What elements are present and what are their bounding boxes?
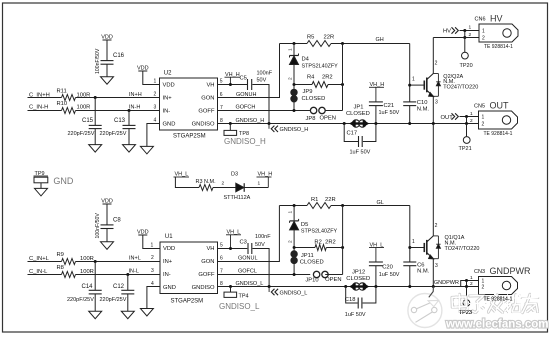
svg-text:D3: D3 — [231, 172, 238, 178]
svg-text:C_IN-L: C_IN-L — [29, 269, 48, 275]
svg-text:GNDISO_L: GNDISO_L — [219, 302, 260, 311]
svg-text:100R: 100R — [80, 269, 94, 275]
svg-text:CN3: CN3 — [474, 269, 485, 275]
svg-text:STGAP2SM: STGAP2SM — [173, 134, 206, 140]
node junction Q1 emitter/bus — [432, 285, 435, 288]
wire U2 pin5 to C5 — [218, 84, 248, 86]
node junction R11/C15 — [94, 96, 97, 99]
svg-text:22R: 22R — [324, 35, 335, 41]
svg-text:100nF: 100nF — [257, 71, 273, 77]
svg-text:VDD: VDD — [163, 246, 175, 252]
ground (C13) — [123, 145, 136, 153]
svg-text:100R: 100R — [77, 105, 91, 111]
wire GON_L riser to R1 row — [279, 205, 307, 207]
jumper JP10 OPEN — [313, 271, 319, 277]
svg-text:GL: GL — [377, 200, 384, 206]
wire U1 pin7 GOFF to JP10 — [218, 274, 311, 276]
wire GL drop to gate — [409, 206, 411, 262]
wire C6 to bus — [409, 266, 411, 287]
wire C16 to ground — [106, 64, 108, 77]
svg-text:C10: C10 — [417, 100, 428, 106]
svg-text:C13: C13 — [114, 118, 126, 124]
wire R8 to U1 pin3 — [76, 274, 161, 276]
capacitor C8 100nF/50V — [101, 224, 114, 226]
wire C_IN-L to R8 — [28, 274, 62, 276]
wire C15 to ground — [94, 129, 96, 145]
node junction VH_L stub — [229, 247, 232, 250]
svg-text:GOFCL: GOFCL — [238, 269, 257, 275]
svg-text:1: 1 — [412, 77, 415, 83]
jumper JP11 CLOSED — [293, 248, 295, 253]
wire C5 to GNDISO_H drop — [252, 85, 269, 124]
svg-text:C18: C18 — [345, 297, 356, 303]
svg-text:3: 3 — [435, 100, 438, 106]
svg-text:2R2: 2R2 — [325, 239, 336, 245]
svg-text:GOFF: GOFF — [198, 272, 215, 278]
svg-text:C3: C3 — [240, 239, 247, 245]
wire OUT row to Q1 collector — [432, 124, 434, 236]
jumper JP8 OPEN — [310, 107, 316, 113]
wire OUT pins link — [466, 117, 468, 124]
svg-text:JP1: JP1 — [354, 105, 364, 111]
node junction C5 drop on bus — [268, 122, 271, 125]
svg-text:JP9: JP9 — [303, 89, 313, 95]
svg-text:2: 2 — [288, 240, 294, 243]
capacitor C14 220pF/25V — [94, 262, 96, 291]
svg-text:3: 3 — [154, 105, 157, 111]
svg-text:2: 2 — [482, 285, 485, 291]
svg-text:N.M.: N.M. — [417, 107, 430, 113]
node junction gate tap — [408, 84, 411, 87]
wire Q1 emitter to bus — [432, 259, 434, 287]
port GNDISO_L chevron — [268, 287, 270, 293]
wire bus to CN3 pin1 — [461, 281, 479, 287]
connector CN3 GNDPWR TE 928814-1 — [479, 277, 518, 295]
svg-text:2: 2 — [435, 61, 438, 67]
wire gate to Q2 — [410, 84, 424, 86]
svg-text:C_IN-H: C_IN-H — [29, 105, 48, 111]
watermark pen mark — [429, 287, 434, 298]
svg-text:CN6: CN6 — [475, 17, 486, 23]
svg-text:VDD: VDD — [163, 82, 175, 88]
svg-text:1: 1 — [258, 181, 261, 187]
svg-text:OPEN: OPEN — [325, 277, 341, 283]
wire VDD to U2 pin1 — [143, 71, 160, 85]
wire R2 row — [294, 247, 315, 249]
wire R11 to U2 pin2 — [76, 97, 160, 99]
svg-text:GON: GON — [201, 96, 214, 102]
svg-text:1uF 50V: 1uF 50V — [350, 150, 371, 156]
wire VH_L to R3 — [175, 177, 199, 188]
node junction emitter/bus — [432, 122, 435, 125]
op-amp U2 STGAP2SM gate driver — [160, 78, 218, 130]
svg-text:1: 1 — [482, 29, 485, 35]
wire C10 to bus — [409, 106, 411, 124]
svg-text:IN-H: IN-H — [129, 104, 140, 110]
svg-text:JP8: JP8 — [306, 116, 316, 122]
svg-text:2: 2 — [222, 181, 225, 187]
wire U1 pin6 GON to R1 riser — [218, 206, 280, 262]
svg-text:TO247/TO220: TO247/TO220 — [445, 246, 480, 252]
wire C14 to ground — [94, 294, 96, 311]
watermark text shao — [506, 296, 510, 312]
svg-text:VH: VH — [206, 246, 214, 252]
svg-text:GNDISO_H: GNDISO_H — [224, 137, 266, 146]
svg-text:GONUH: GONUH — [236, 92, 257, 98]
wire U2 pin4 to ground — [147, 124, 160, 147]
svg-text:2: 2 — [154, 92, 157, 98]
svg-text:3: 3 — [151, 268, 154, 274]
svg-text:C_IN+L: C_IN+L — [29, 256, 50, 262]
svg-text:R10: R10 — [57, 101, 68, 107]
svg-text:JP10: JP10 — [305, 278, 318, 284]
diode D5 STPS2L40ZFY — [293, 206, 295, 221]
svg-text:100nF: 100nF — [255, 234, 271, 240]
wire R10 to U2 pin3 — [76, 110, 160, 112]
node junction R10/C13 — [128, 109, 131, 112]
wire JP8 to riser — [325, 110, 342, 112]
svg-text:TE 928814-1: TE 928814-1 — [484, 297, 513, 303]
ground (C14) — [89, 311, 102, 319]
svg-text:IN+L: IN+L — [129, 256, 141, 262]
node junction R1 right — [341, 204, 344, 207]
connector CN5 OUT TE 928814-1 — [479, 111, 518, 129]
ground (C16) — [101, 77, 114, 85]
wire U1 pin4 to ground — [147, 287, 160, 309]
svg-text:TP23: TP23 — [459, 310, 472, 316]
node junction C3 drop on bus — [268, 285, 271, 288]
svg-text:D4: D4 — [302, 57, 310, 63]
svg-text:GND: GND — [53, 176, 74, 186]
svg-text:GNDISO_L: GNDISO_L — [236, 281, 264, 287]
wire C21 to bus — [375, 106, 377, 124]
svg-text:1: 1 — [470, 275, 473, 281]
svg-text:GNDISO_L: GNDISO_L — [280, 290, 308, 296]
svg-text:4: 4 — [154, 118, 157, 124]
svg-text:TP21: TP21 — [459, 146, 472, 152]
svg-text:1: 1 — [151, 242, 154, 248]
watermark text you — [522, 296, 537, 300]
node junction C17 left — [343, 122, 346, 125]
wire riser x342 bottom — [342, 206, 344, 275]
port GNDISO_H chevron — [268, 124, 270, 129]
svg-text:100nF/50V: 100nF/50V — [95, 213, 101, 239]
svg-text:IN+: IN+ — [163, 259, 173, 265]
wire GH drop to gate — [409, 44, 411, 102]
svg-text:GNDISO: GNDISO — [192, 122, 215, 128]
svg-text:C21: C21 — [384, 103, 395, 109]
capacitor C10 N.M. — [403, 101, 416, 103]
svg-text:1: 1 — [470, 111, 473, 117]
capacitor C21 1uF 50V — [375, 87, 377, 101]
node junction C20/bus — [374, 285, 377, 288]
node junction C10/bus — [408, 122, 411, 125]
svg-text:STTH112A: STTH112A — [224, 195, 251, 201]
svg-text:D5: D5 — [301, 222, 308, 228]
capacitor C16 100nF/50V — [101, 60, 114, 62]
svg-text:1uF 50V: 1uF 50V — [379, 110, 400, 116]
wire C8 to ground — [106, 229, 108, 242]
wire C_IN+H to R11 — [28, 97, 62, 99]
wire Q2 emitter to bus — [432, 96, 434, 123]
capacitor C13 220pF/25V — [128, 111, 130, 126]
wire VDD to C16 — [106, 40, 108, 60]
node junction JP9 on GOFF — [293, 109, 296, 112]
wire R3 to D3 — [213, 187, 236, 189]
svg-text:C20: C20 — [382, 265, 393, 271]
wire HV pins link — [464, 31, 466, 38]
svg-text:C5: C5 — [240, 76, 247, 82]
node junction C21/bus — [374, 122, 377, 125]
svg-text:OPEN: OPEN — [320, 115, 336, 121]
capacitor C20 1uF 50V — [375, 248, 377, 262]
svg-text:CLOSED: CLOSED — [346, 276, 370, 282]
svg-text:JP11: JP11 — [301, 253, 314, 259]
watermark text fa — [488, 297, 503, 301]
wire C3 to GNDISO_L drop — [253, 249, 270, 287]
svg-text:2: 2 — [470, 118, 473, 124]
node junction D4/R4 — [293, 83, 296, 86]
svg-text:STPS2L40ZFY: STPS2L40ZFY — [302, 64, 339, 70]
ground (TP9) — [35, 188, 48, 196]
wire GON riser to R5 row — [280, 43, 308, 45]
watermark text zi — [470, 296, 484, 302]
node junction OUT pin2 — [465, 122, 468, 125]
node junction OUT pin1 — [465, 115, 468, 118]
capacitor C15 220pF/25V — [94, 98, 96, 126]
ground (C12) — [121, 311, 134, 319]
svg-text:GNDISO_H: GNDISO_H — [280, 127, 309, 133]
svg-text:1: 1 — [469, 25, 472, 31]
test point TP4 — [229, 285, 232, 288]
op-amp U1 STGAP2SM gate driver — [160, 242, 218, 294]
svg-text:R4: R4 — [307, 75, 315, 81]
ground (U1 GND) — [140, 309, 153, 317]
svg-text:C14: C14 — [82, 284, 94, 290]
wire JP10 to riser — [325, 274, 342, 276]
svg-text:C12: C12 — [113, 284, 125, 290]
svg-text:TP4: TP4 — [239, 294, 249, 300]
wire VDD to U1 pin1 — [143, 235, 160, 249]
watermark text dian — [460, 294, 468, 311]
svg-text:IN-: IN- — [163, 272, 171, 278]
svg-text:CLOSED: CLOSED — [346, 111, 370, 117]
wire U1 pin8 GNDISO_L bus — [218, 286, 479, 288]
svg-text:C17: C17 — [347, 131, 358, 137]
svg-text:U2: U2 — [164, 71, 172, 77]
capacitor C12 220pF/25V — [127, 275, 129, 291]
node junction R2 right — [341, 246, 344, 249]
node junction C6/bus — [408, 285, 411, 288]
svg-text:GOFF: GOFF — [198, 109, 215, 115]
svg-text:1: 1 — [412, 239, 415, 245]
svg-text:C15: C15 — [82, 118, 94, 124]
wire R9 to U1 pin2 — [76, 261, 161, 263]
node junction D4 top — [293, 42, 296, 45]
svg-text:OUT: OUT — [441, 115, 454, 121]
svg-text:HV: HV — [490, 14, 503, 24]
svg-text:220pF/25V: 220pF/25V — [68, 131, 95, 137]
svg-text:1: 1 — [482, 115, 485, 121]
svg-text:2: 2 — [151, 255, 154, 261]
svg-text:CLOSED: CLOSED — [302, 96, 326, 102]
diode D4 STPS2L40ZFY — [293, 44, 295, 56]
ground (C15) — [89, 145, 102, 153]
wire OUT to CN5 — [460, 116, 479, 118]
wire R4 row — [294, 84, 312, 86]
svg-text:50V: 50V — [255, 242, 265, 248]
svg-text:GNDPWR: GNDPWR — [490, 266, 531, 276]
svg-text:GOFCH: GOFCH — [236, 105, 256, 111]
wire TP9 to ground — [40, 183, 42, 189]
svg-text:VH: VH — [206, 82, 214, 88]
node junction D5/R2 — [293, 246, 296, 249]
svg-text:R5: R5 — [307, 35, 314, 41]
svg-text:STGAP2SM: STGAP2SM — [171, 299, 204, 305]
svg-text:GNDPWR: GNDPWR — [434, 280, 459, 286]
jumper JP9 CLOSED — [293, 85, 295, 90]
svg-text:1uF 50V: 1uF 50V — [379, 272, 400, 278]
svg-text:22R: 22R — [325, 197, 336, 203]
node junction D5 top — [293, 204, 296, 207]
svg-text:2: 2 — [435, 223, 438, 229]
svg-text:GND: GND — [163, 285, 176, 291]
svg-text:220pF/25V: 220pF/25V — [67, 297, 94, 303]
svg-text:100R: 100R — [80, 256, 94, 262]
wire VDD to C8 — [106, 204, 108, 225]
wire Q2 collector to HV row — [432, 38, 434, 74]
svg-text:2R2: 2R2 — [322, 75, 333, 81]
svg-text:JP12: JP12 — [352, 269, 365, 275]
svg-text:HV: HV — [443, 29, 451, 35]
svg-text:1: 1 — [288, 48, 294, 51]
svg-text:TP20: TP20 — [460, 63, 473, 69]
wire U1 pin5 to C3 — [218, 248, 248, 250]
svg-text:C8: C8 — [113, 218, 121, 224]
svg-text:R9: R9 — [57, 252, 64, 258]
svg-text:2: 2 — [469, 32, 472, 38]
svg-text:GONUL: GONUL — [238, 256, 258, 262]
svg-text:220pF/25V: 220pF/25V — [100, 297, 127, 303]
svg-text:TE 928814-1: TE 928814-1 — [484, 44, 513, 50]
svg-text:1: 1 — [288, 211, 294, 214]
svg-text:1: 1 — [154, 78, 157, 84]
node junction R5/GOFF riser — [341, 42, 344, 45]
wire C20 to bus — [375, 266, 377, 287]
node junction R4 right — [341, 83, 344, 86]
ground (C8) — [101, 242, 114, 250]
svg-text:50V: 50V — [257, 77, 267, 83]
svg-text:IN-L: IN-L — [129, 269, 139, 275]
ground (U2 GND) — [140, 146, 153, 154]
svg-text:R11: R11 — [57, 89, 67, 95]
wire C13 to ground — [128, 129, 130, 145]
svg-text:2: 2 — [288, 77, 294, 80]
svg-text:GH: GH — [376, 37, 384, 43]
node junction R8/C12 — [126, 273, 129, 276]
wire D3 to VH_H — [244, 187, 268, 189]
svg-text:2: 2 — [470, 281, 473, 287]
wire HV to CN6 — [460, 30, 480, 32]
wire R1 to GL corner — [331, 205, 410, 207]
node junction CN3 pin1 — [465, 279, 468, 282]
watermark logo circle — [408, 294, 442, 328]
svg-text:STPS2L40ZFY: STPS2L40ZFY — [301, 229, 338, 235]
svg-text:5: 5 — [220, 79, 223, 85]
wire gate to Q1 — [410, 247, 424, 249]
svg-text:7: 7 — [220, 269, 223, 275]
svg-text:4: 4 — [151, 281, 154, 287]
connector CN6 HV TE 928814-1 — [479, 24, 518, 42]
svg-text:5: 5 — [220, 243, 223, 249]
svg-text:CLOSED: CLOSED — [300, 260, 324, 266]
capacitor C6 N.M. — [403, 261, 416, 263]
svg-text:1uF 50V: 1uF 50V — [345, 312, 366, 318]
wire U2 pin6 GON to R5 riser — [218, 44, 280, 98]
svg-text:8: 8 — [220, 118, 223, 124]
svg-text:GNDISO: GNDISO — [192, 285, 215, 291]
node junction VH_H stub — [229, 83, 232, 86]
svg-text:U1: U1 — [165, 234, 173, 240]
svg-text:IN-: IN- — [163, 109, 171, 115]
svg-text:220pF/25V: 220pF/25V — [100, 131, 127, 137]
node junction gate tap Q1 — [408, 246, 411, 249]
svg-text:R3 N.M.: R3 N.M. — [196, 179, 217, 185]
svg-text:IN+H: IN+H — [129, 92, 142, 98]
wire GOFF riser x342 — [342, 44, 344, 111]
node junction HV pin1 — [463, 29, 466, 32]
svg-text:R8: R8 — [57, 265, 64, 271]
node junction JP11 on GOFF_L — [293, 273, 296, 276]
svg-text:2: 2 — [482, 36, 485, 42]
wire R5 to GH corner — [331, 43, 410, 45]
svg-text:6: 6 — [220, 92, 223, 98]
wire C_IN+L to R9 — [28, 261, 62, 263]
wire C_IN-H to R10 — [28, 110, 62, 112]
svg-text:GND: GND — [163, 122, 176, 128]
node junction HV pin2 — [463, 36, 466, 39]
svg-text:GNDISO_H: GNDISO_H — [236, 118, 265, 124]
svg-text:6: 6 — [220, 256, 223, 262]
svg-text:GON: GON — [201, 259, 214, 265]
svg-text:TO247/TO220: TO247/TO220 — [443, 85, 478, 91]
wire C12 to ground — [127, 294, 129, 311]
node junction CN3 pin2 — [465, 285, 468, 288]
svg-text:3: 3 — [435, 263, 438, 269]
test point TP8 — [229, 122, 232, 125]
wire U2 pin7 GOFF to JP8 — [218, 110, 311, 112]
svg-text:2: 2 — [482, 122, 485, 128]
wire CN3 pins link — [466, 281, 468, 287]
svg-text:CN5: CN5 — [474, 104, 485, 110]
svg-text:C16: C16 — [113, 53, 125, 59]
node junction R9/C14 — [94, 260, 97, 263]
test point TP23 — [466, 287, 468, 300]
test point TP21 — [466, 124, 468, 137]
node junction C18 left — [344, 285, 347, 288]
wire U2 pin8 GNDISO_H bus — [218, 123, 479, 125]
svg-text:www.elecfans.com: www.elecfans.com — [445, 319, 548, 331]
svg-text:TE 928814-1: TE 928814-1 — [484, 131, 513, 137]
svg-text:N.M.: N.M. — [417, 269, 430, 275]
wire pin2 row to collector — [433, 37, 479, 39]
svg-text:IN+: IN+ — [163, 96, 173, 102]
test point TP20 — [464, 38, 466, 53]
svg-text:OUT: OUT — [490, 101, 510, 111]
svg-text:100nF/50V: 100nF/50V — [95, 48, 101, 74]
